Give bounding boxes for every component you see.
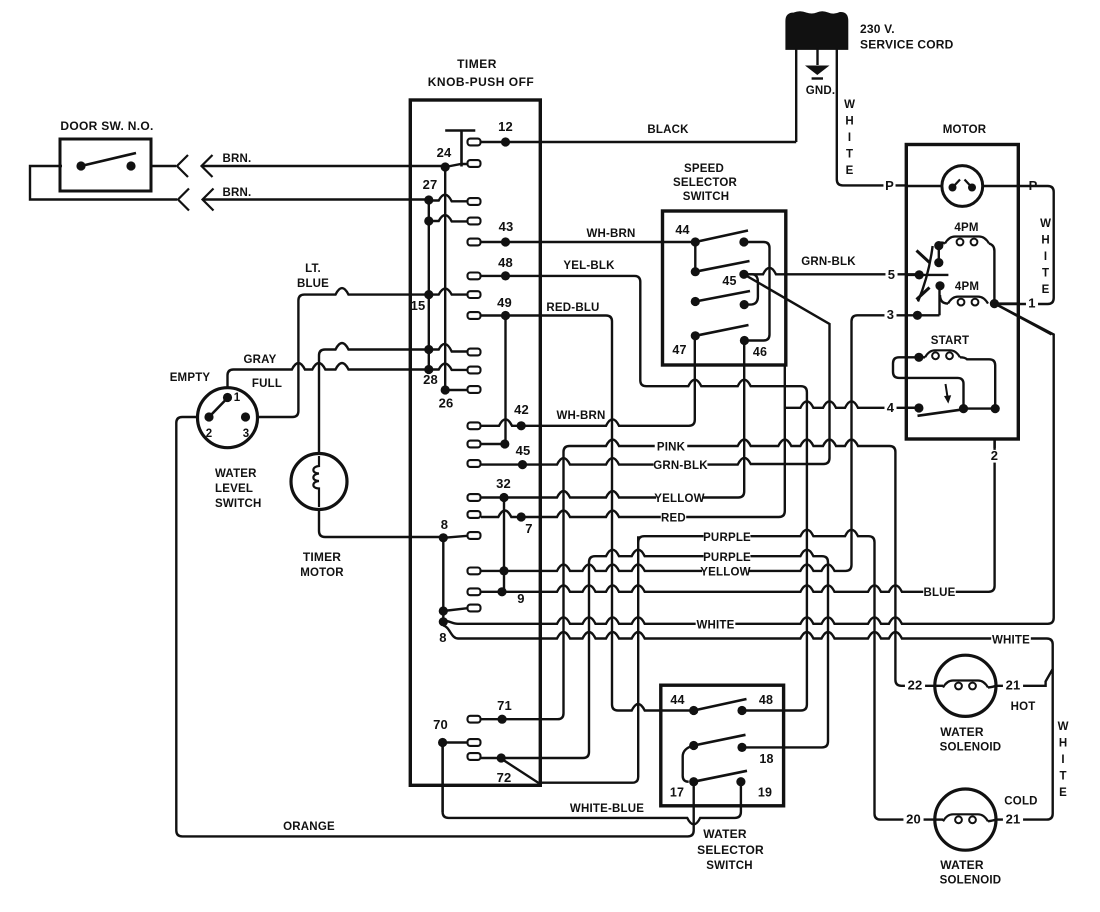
timer terminal dot 7: [517, 512, 526, 521]
svg-text:COLD: COLD: [1004, 796, 1037, 808]
wire motor 4 inside: [906, 407, 919, 409]
svg-text:SWITCH: SWITCH: [706, 860, 753, 872]
wire GRN-BLK1 net: [744, 268, 919, 275]
label YELLOW2: [702, 567, 749, 578]
timer contact lug 27b: [468, 218, 481, 225]
ss terminal R1: [739, 237, 748, 246]
label WHITE row: [696, 620, 736, 631]
motor governor arc: [918, 246, 933, 302]
svg-text:RED-BLU: RED-BLU: [546, 302, 599, 314]
svg-text:WH-BRN: WH-BRN: [556, 410, 605, 422]
wire HOT21 kink: [996, 669, 1053, 686]
motor contact c: [935, 281, 944, 290]
timer terminal dot 42: [517, 421, 526, 430]
timer terminal dot 15: [424, 290, 433, 299]
svg-text:45: 45: [722, 274, 736, 288]
label WHITE2: [991, 635, 1031, 646]
wire GRN-BLK2 net: [481, 274, 830, 464]
wire LT-BLUE: [246, 288, 429, 417]
label motor 2: [988, 450, 1000, 463]
svg-text:9: 9: [517, 591, 524, 606]
wire cold sol right lead: [988, 820, 996, 822]
motor governor leaf lower: [917, 288, 930, 300]
timer terminal dot 32: [499, 493, 508, 502]
wire RED net: [481, 365, 785, 517]
timer terminal dot 24: [441, 162, 450, 171]
wire 72 diagonal: [503, 536, 639, 783]
ss link R1-46: [744, 242, 770, 341]
motor start coil: [925, 350, 960, 357]
motor protector circle: [942, 166, 983, 207]
label P left: [883, 180, 895, 193]
wire BLUE net: [481, 439, 995, 592]
ss terminal 44: [691, 237, 700, 246]
wire motor 1 diagonal: [996, 304, 1052, 335]
wls terminal 1: [223, 393, 232, 402]
svg-text:7: 7: [525, 521, 532, 536]
svg-text:2: 2: [991, 448, 998, 463]
speed selector box: [663, 211, 786, 365]
svg-text:HOT: HOT: [1011, 701, 1036, 713]
svg-text:SWITCH: SWITCH: [215, 498, 262, 510]
svg-text:MOTOR: MOTOR: [300, 567, 344, 579]
wire motor4 branch: [785, 401, 919, 408]
timer contact lug 15: [468, 291, 481, 298]
timer box: [410, 100, 540, 785]
wire hot sol right lead: [988, 686, 996, 688]
svg-text:T: T: [1059, 771, 1066, 783]
wire WHITE net: [443, 304, 1053, 624]
wire 8 to lug: [443, 536, 467, 538]
ws terminal L2: [689, 741, 698, 750]
timer internal bus 70: [441, 743, 443, 813]
wire RED-BLU net: [481, 316, 694, 711]
wire 24 to lug: [445, 164, 467, 167]
wls terminal 3: [241, 412, 250, 421]
timer contact lug cC: [468, 605, 481, 612]
motor start contact R: [959, 404, 968, 413]
wire 27b to lug: [429, 215, 468, 221]
svg-text:KNOB-PUSH OFF: KNOB-PUSH OFF: [428, 75, 535, 89]
connector chevron row2: [178, 189, 189, 211]
wire service cord left lead: [795, 49, 797, 142]
wire motor3 riser: [938, 286, 940, 316]
svg-text:49: 49: [497, 295, 512, 310]
ws blade 44: [694, 699, 747, 711]
svg-text:45: 45: [516, 443, 531, 458]
protector contact right: [968, 184, 976, 192]
svg-text:E: E: [1059, 787, 1067, 799]
svg-text:BLUE: BLUE: [297, 278, 329, 290]
wire motor2 stub: [993, 439, 995, 448]
wire start coil right: [960, 357, 995, 408]
motor contact a: [934, 241, 943, 250]
svg-text:1: 1: [234, 392, 241, 404]
wire door switch right lead: [151, 165, 176, 167]
svg-text:72: 72: [497, 770, 512, 785]
wire GRAY: [228, 363, 429, 398]
timer terminal dot n444: [500, 439, 509, 448]
hot solenoid circle: [935, 655, 996, 716]
motor link ab: [938, 246, 940, 263]
ground symbol: [805, 66, 830, 76]
label cold 20: [903, 813, 923, 826]
label hot 22: [905, 679, 925, 692]
timer contact lug 72: [468, 753, 481, 760]
wire motor 5 stub: [906, 274, 948, 276]
label motor 4: [884, 402, 896, 415]
wire timer-motor top: [319, 343, 429, 454]
svg-text:24: 24: [437, 145, 452, 160]
wire WH-BRN1: [481, 241, 695, 243]
label motor 3: [884, 309, 896, 322]
timer terminal dot n369: [424, 365, 433, 374]
timer terminal dot 8a: [439, 533, 448, 542]
timer contact lug 9: [468, 588, 481, 595]
svg-text:2: 2: [206, 428, 213, 440]
svg-text:3: 3: [243, 428, 250, 440]
svg-text:SOLENOID: SOLENOID: [940, 875, 1002, 887]
ss link 45-R3: [744, 274, 758, 304]
wire ORANGE net: [176, 417, 693, 836]
timer terminal dot 43: [501, 237, 510, 246]
timer internal riser 32-9: [503, 498, 505, 592]
svg-text:WHITE-BLUE: WHITE-BLUE: [570, 803, 644, 815]
wire start coil left: [919, 356, 925, 358]
ss blade L3: [695, 291, 750, 302]
svg-text:12: 12: [498, 119, 513, 134]
svg-text:4: 4: [887, 400, 895, 415]
wire coil1 right lead: [989, 244, 994, 304]
svg-text:P: P: [885, 178, 894, 193]
water level switch circle: [198, 388, 258, 448]
ss blade 47: [695, 325, 748, 336]
wire BRN row2 to timer 27: [203, 198, 429, 200]
wire 27 to lug: [429, 195, 468, 202]
ss terminal L3: [691, 297, 700, 306]
wire coil1 left lead: [939, 243, 945, 246]
ss terminal 45: [739, 270, 748, 279]
svg-text:15: 15: [411, 298, 426, 313]
svg-text:BLACK: BLACK: [647, 124, 689, 136]
svg-text:28: 28: [423, 372, 438, 387]
protector whisker right: [965, 180, 973, 188]
wire WHITE service cord: [837, 49, 907, 185]
timer contact lug cA: [468, 568, 481, 575]
svg-text:71: 71: [497, 698, 512, 713]
motor contact b: [934, 258, 943, 267]
connector chevron row1: [177, 155, 188, 177]
timer terminal dot 45t: [518, 460, 527, 469]
svg-text:DOOR SW. N.O.: DOOR SW. N.O.: [60, 119, 153, 133]
svg-text:3: 3: [887, 307, 894, 322]
wire YELLOW2 net: [481, 315, 940, 571]
protector whisker left: [953, 180, 961, 188]
wire start row: [964, 407, 996, 409]
timer contact lug 24: [468, 160, 481, 167]
wire BLACK row: [481, 141, 796, 143]
timer knob T-bar: [445, 131, 475, 167]
svg-text:42: 42: [514, 402, 529, 417]
label motor 5: [885, 269, 897, 282]
svg-text:W: W: [844, 99, 855, 111]
ss blade 44: [695, 231, 748, 243]
wire WH-BRN2 net: [481, 336, 695, 426]
timer terminal dot 71: [498, 715, 507, 724]
label PINK: [655, 442, 688, 453]
ws blade pole2: [694, 735, 746, 746]
timer contact lug c444: [468, 441, 481, 448]
svg-text:21: 21: [1006, 678, 1021, 693]
ws terminal 48: [737, 706, 746, 715]
timer terminal dot 72: [497, 753, 506, 762]
timer motor circle: [291, 454, 347, 510]
timer terminal dot 27: [424, 195, 433, 204]
connector arrow row1: [202, 155, 213, 177]
wire gnd stem: [816, 49, 818, 65]
wire 70 to lug: [443, 741, 468, 743]
svg-text:RED: RED: [661, 513, 686, 525]
timer terminal dot nA: [499, 566, 508, 575]
timer contact lug 28: [468, 386, 481, 393]
ws blade 17: [694, 771, 747, 782]
svg-text:21: 21: [1006, 812, 1021, 827]
timer contact lug c369: [468, 367, 481, 374]
svg-text:WATER: WATER: [940, 725, 984, 739]
timer contact lug c349: [468, 349, 481, 356]
svg-text:4PM: 4PM: [954, 222, 978, 234]
wire mid45 to lug: [481, 443, 505, 445]
svg-text:1: 1: [1028, 296, 1035, 311]
wire motor 1 row: [994, 302, 1018, 304]
timer contact lug 45: [468, 460, 481, 467]
svg-text:ORANGE: ORANGE: [283, 821, 335, 833]
ss terminal 47: [691, 331, 700, 340]
timer contact lug 43: [468, 239, 481, 246]
svg-text:H: H: [1059, 738, 1067, 750]
svg-text:8: 8: [441, 517, 448, 532]
motor terminal 4: [914, 403, 923, 412]
svg-text:YELLOW: YELLOW: [654, 493, 704, 505]
water selector box: [661, 685, 784, 806]
wire dotC to lug: [443, 608, 467, 611]
wire cold sol left lead: [935, 818, 943, 820]
label P right: [1027, 180, 1039, 193]
ss terminal 46: [740, 336, 749, 345]
ws terminal 44: [689, 706, 698, 715]
hot solenoid coil: [943, 681, 988, 688]
ss link 44-L2: [694, 242, 696, 272]
svg-text:W: W: [1040, 218, 1051, 230]
timer terminal dot 49: [501, 311, 510, 320]
svg-text:19: 19: [758, 786, 772, 800]
timer contact lug 32: [468, 494, 481, 501]
svg-text:26: 26: [439, 396, 454, 411]
timer contact lug 42: [468, 422, 481, 429]
svg-text:SERVICE CORD: SERVICE CORD: [860, 38, 954, 52]
svg-text:FULL: FULL: [252, 378, 282, 390]
timer contact lug 70: [468, 739, 481, 746]
label BLUE: [923, 587, 956, 598]
svg-text:MOTOR: MOTOR: [943, 124, 987, 136]
wire coil2 left lead: [940, 295, 948, 304]
ws terminal 18: [737, 743, 746, 752]
svg-text:BRN.: BRN.: [223, 153, 252, 165]
svg-text:SWITCH: SWITCH: [683, 191, 730, 203]
svg-text:PURPLE: PURPLE: [703, 532, 751, 544]
svg-text:20: 20: [906, 812, 921, 827]
timer motor coil squiggle: [313, 456, 319, 507]
svg-text:T: T: [1042, 268, 1049, 280]
timer contact lug 48: [468, 273, 481, 280]
label YELLOW: [656, 493, 703, 504]
svg-text:17: 17: [670, 786, 684, 800]
timer internal bus 24-28: [444, 167, 446, 390]
label RED: [661, 513, 686, 524]
timer contact lug 12: [468, 139, 481, 146]
motor junction 1: [990, 299, 999, 308]
wire PURPLE2 net: [481, 550, 828, 758]
svg-text:8: 8: [439, 630, 446, 645]
cold solenoid circle: [935, 789, 996, 850]
svg-text:BRN.: BRN.: [223, 187, 252, 199]
wire YELLOW net: [481, 341, 744, 498]
label GRN-BLK1: [802, 256, 856, 267]
wire motor P row: [906, 185, 1018, 187]
svg-text:W: W: [1058, 721, 1069, 733]
svg-text:TIMER: TIMER: [303, 550, 341, 564]
svg-text:T: T: [846, 149, 853, 161]
svg-text:18: 18: [759, 752, 773, 766]
svg-text:WATER: WATER: [940, 858, 984, 872]
svg-text:H: H: [1041, 235, 1049, 247]
wire P loop right: [996, 186, 1054, 304]
ws terminal 17: [689, 777, 698, 786]
wire 28 to lug: [445, 389, 467, 391]
svg-text:32: 32: [496, 476, 511, 491]
wire WHITE-BLUE net: [443, 743, 741, 825]
label motor 1: [1026, 297, 1038, 310]
svg-text:E: E: [1042, 284, 1050, 296]
timer terminal dot nD: [439, 617, 448, 626]
timer terminal dot 27b: [424, 216, 433, 225]
timer contact lug 49: [468, 312, 481, 319]
svg-text:22: 22: [908, 678, 923, 693]
wls blade: [209, 400, 226, 418]
timer terminal dot nC: [439, 606, 448, 615]
svg-text:46: 46: [753, 345, 767, 359]
svg-text:WATER: WATER: [215, 468, 257, 480]
timer terminal dot 12: [501, 137, 510, 146]
motor start switch arrow: [946, 384, 948, 397]
svg-text:GRN-BLK: GRN-BLK: [653, 460, 708, 472]
motor start junction: [991, 404, 1000, 413]
timer contact lug 7: [468, 511, 481, 518]
timer terminal dot 9: [497, 587, 506, 596]
wire timer-motor bottom: [319, 510, 443, 538]
wire BRN row1 to timer 24: [202, 165, 446, 167]
motor terminal 3: [913, 311, 922, 320]
motor terminal 5: [915, 270, 924, 279]
wire 369 to lug: [429, 364, 468, 370]
wire PINK net: [481, 440, 935, 720]
ss terminal L2: [691, 267, 700, 276]
motor main coil lower: [948, 297, 988, 304]
service cord plug: [786, 12, 848, 50]
svg-text:SELECTOR: SELECTOR: [673, 177, 738, 189]
timer internal bus 27-15: [428, 200, 430, 370]
wire hot sol left lead: [935, 685, 943, 687]
svg-text:I: I: [1061, 754, 1064, 766]
svg-text:YEL-BLK: YEL-BLK: [563, 260, 615, 272]
svg-text:48: 48: [498, 255, 513, 270]
svg-text:44: 44: [670, 693, 684, 707]
label PURPLE1: [704, 532, 751, 543]
wire start loop: [893, 357, 964, 408]
door switch DS1 box: [60, 139, 151, 191]
door switch contact left: [76, 161, 85, 170]
cold solenoid coil: [943, 814, 988, 821]
wire PURPLE1 net: [638, 530, 935, 820]
ws terminal 19: [736, 777, 745, 786]
connector arrow row2: [203, 189, 214, 211]
svg-text:GRN-BLK: GRN-BLK: [801, 256, 856, 268]
timer internal bus 8: [442, 538, 444, 624]
svg-text:SOLENOID: SOLENOID: [940, 742, 1002, 754]
motor start contact: [914, 353, 923, 362]
label cold 21: [1003, 813, 1023, 826]
svg-text:WHITE: WHITE: [992, 635, 1030, 647]
timer contact lug 27a: [468, 198, 481, 205]
svg-text:230 V.: 230 V.: [860, 22, 895, 36]
svg-text:GND.: GND.: [806, 85, 836, 97]
wire YEL-BLK net: [481, 276, 807, 711]
svg-text:48: 48: [759, 693, 773, 707]
svg-text:LEVEL: LEVEL: [215, 483, 253, 495]
wire WHITE2 net: [443, 626, 1052, 820]
svg-text:WH-BRN: WH-BRN: [586, 228, 635, 240]
wire 349 to lug: [429, 344, 468, 352]
wls terminal 2: [204, 412, 213, 421]
svg-text:H: H: [845, 116, 853, 128]
svg-text:4PM: 4PM: [955, 281, 979, 293]
svg-text:PINK: PINK: [657, 442, 686, 454]
door switch contact right: [126, 161, 135, 170]
svg-text:LT.: LT.: [305, 263, 321, 275]
svg-text:44: 44: [675, 223, 689, 237]
protector contact left: [949, 184, 957, 192]
svg-text:BLUE: BLUE: [923, 587, 955, 599]
svg-text:43: 43: [499, 219, 514, 234]
label PURPLE2: [704, 552, 751, 563]
timer terminal dot 48: [501, 271, 510, 280]
wire 15 to lug: [429, 289, 468, 295]
svg-text:I: I: [1044, 251, 1047, 263]
svg-text:47: 47: [672, 343, 686, 357]
svg-text:PURPLE: PURPLE: [703, 552, 751, 564]
svg-text:EMPTY: EMPTY: [170, 372, 211, 384]
svg-text:27: 27: [423, 177, 438, 192]
svg-text:WATER: WATER: [703, 827, 747, 841]
timer internal riser 49-45: [504, 316, 506, 445]
svg-text:70: 70: [433, 717, 448, 732]
timer terminal dot 28: [441, 385, 450, 394]
svg-text:5: 5: [888, 267, 895, 282]
wire door switch left loop: [30, 166, 177, 200]
svg-text:SELECTOR: SELECTOR: [697, 843, 764, 857]
svg-text:I: I: [848, 132, 851, 144]
svg-text:WHITE: WHITE: [696, 620, 734, 632]
